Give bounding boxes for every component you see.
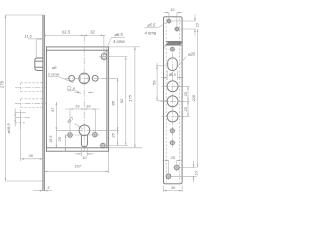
dim 59 left of faceplate bbox=[156, 63, 169, 101]
faceplate vertical centerline bbox=[172, 53, 174, 149]
dimension text 25 bottom bbox=[170, 156, 176, 160]
label d8 2 holes with leader bbox=[47, 65, 74, 83]
svg-text:175: 175 bbox=[127, 94, 132, 101]
dim chain 25/25 right of circles bbox=[179, 86, 190, 116]
dim 85 and 25 vertical line bbox=[117, 78, 119, 145]
keyhole circle bbox=[79, 125, 90, 136]
faceplate big hole 2 bbox=[161, 96, 185, 107]
vertical centerline through follower and keyhole bbox=[83, 35, 85, 152]
dim 107 (body width) bbox=[44, 151, 108, 173]
dimension text 11.5 bbox=[24, 33, 32, 38]
svg-text:⌀5.5: ⌀5.5 bbox=[147, 23, 156, 28]
lock body inner edge lines bbox=[46, 50, 108, 148]
dim d18.5 cylinder hole bbox=[14, 109, 30, 131]
dimension text 25 chain upper bbox=[184, 91, 188, 97]
svg-text:19: 19 bbox=[86, 104, 91, 109]
dimension text 10 top bbox=[170, 8, 175, 12]
faceplate edge view (side), 3mm strip bbox=[43, 15, 44, 191]
keyhole ext line right to dims bbox=[93, 129, 120, 131]
keyhole slot bbox=[81, 135, 87, 147]
dimension text 10 top-right bbox=[195, 22, 199, 27]
svg-text:⌀18.5: ⌀18.5 bbox=[6, 123, 11, 134]
dimension text 16.5 bbox=[49, 135, 53, 143]
dim 47 (deadbolt axis to keyhole axis) bbox=[56, 102, 58, 130]
dimension text 10 under body bbox=[82, 156, 87, 160]
hole d8 left bbox=[69, 75, 75, 81]
dimension text 19 right bbox=[86, 104, 91, 109]
svg-text:11.5: 11.5 bbox=[24, 33, 32, 38]
label d6.5 4 holes with leader bbox=[102, 32, 126, 59]
dim 10 vertical top-right bbox=[171, 15, 196, 36]
dimension text 3 bbox=[47, 185, 50, 190]
follower ext line to right dim bbox=[101, 77, 118, 79]
dimension text 107 bbox=[74, 164, 81, 169]
top dimension line 61.5 / 32 bbox=[43, 35, 106, 53]
dimension text 92 bbox=[119, 98, 124, 103]
dimension text d18.5 bbox=[6, 123, 11, 134]
bottom screw hole upper-right bbox=[173, 164, 180, 171]
dimension 11.5 (latch protrusion) bbox=[28, 38, 43, 57]
dimension text 19 left bbox=[75, 104, 80, 109]
dim 30 faceplate width bbox=[164, 186, 183, 193]
dimension text 85 bbox=[110, 100, 115, 105]
lock body outline bbox=[46, 47, 108, 151]
dimension text 276 bbox=[0, 80, 4, 89]
keyhole ext line left to dims bbox=[56, 129, 77, 131]
bottom hole ext line right bbox=[107, 145, 128, 147]
dimension text 59 bbox=[151, 80, 156, 85]
hole d6.5 top-right ext line to right bbox=[104, 56, 127, 58]
dim 228 overall bbox=[197, 29, 199, 168]
svg-text:59: 59 bbox=[151, 80, 156, 85]
mount hole left of keyhole bbox=[67, 132, 74, 139]
dim 175 vertical line bbox=[134, 47, 136, 148]
faceplate hidden body edges (dashed) bbox=[166, 19, 179, 183]
faceplate big hole 1 bbox=[162, 81, 185, 92]
dimension 276 line (overall faceplate height) bbox=[5, 15, 45, 181]
dimension text 25 lower-left bbox=[58, 136, 62, 142]
deadbolt upper centerline bbox=[15, 87, 46, 89]
svg-text:25: 25 bbox=[170, 156, 176, 160]
dim 25 bottom of faceplate bbox=[162, 160, 183, 173]
dim 10 top (hole offset) bbox=[164, 12, 183, 27]
dimension text 16.5 on faceplate bbox=[169, 73, 176, 77]
svg-text:92: 92 bbox=[119, 98, 124, 103]
svg-text:25: 25 bbox=[58, 136, 62, 142]
dim 10 bottom-right bbox=[172, 161, 197, 183]
centerline through mount holes bbox=[66, 134, 100, 136]
svg-text:⌀8: ⌀8 bbox=[52, 65, 57, 70]
dimension text 47 bbox=[50, 107, 55, 112]
body bottom ext line to right bbox=[109, 147, 142, 149]
svg-text:47: 47 bbox=[50, 107, 55, 112]
label d20 with leader bbox=[170, 52, 196, 76]
svg-text:2 отв: 2 отв bbox=[47, 72, 59, 77]
svg-text:⌀6.5: ⌀6.5 bbox=[114, 32, 123, 37]
svg-text:32: 32 bbox=[90, 29, 95, 34]
svg-text:107: 107 bbox=[74, 164, 81, 169]
svg-text:25: 25 bbox=[184, 106, 188, 112]
svg-text:25: 25 bbox=[184, 91, 188, 97]
dim 92 vertical line bbox=[125, 57, 127, 146]
dimension text 10 bottom-right bbox=[194, 170, 198, 175]
screw hole D bbox=[169, 128, 175, 134]
dim line 19/19 over keyhole bbox=[65, 108, 100, 132]
square follower hub d17 with 8mm square bbox=[79, 73, 90, 84]
dimension text 228 bbox=[192, 94, 196, 102]
mount hole right of keyhole bbox=[91, 131, 98, 138]
svg-text:25: 25 bbox=[111, 133, 115, 139]
bottom screw hole lower-left bbox=[165, 173, 172, 180]
cylinder slot obround 16.5 wide bbox=[168, 58, 178, 71]
svg-text:61.5: 61.5 bbox=[62, 30, 71, 35]
svg-text:36: 36 bbox=[28, 153, 33, 158]
svg-text:19: 19 bbox=[75, 104, 80, 109]
svg-text:4 отв: 4 отв bbox=[113, 39, 125, 44]
deadbolt lower centerline bbox=[15, 102, 46, 104]
screw hole A top bbox=[166, 18, 172, 24]
small dim under follower square bbox=[75, 92, 94, 94]
latch opening with hatch bbox=[166, 42, 183, 46]
latch bolt (side view) protruding left bbox=[35, 58, 43, 70]
dimension text 30 bbox=[171, 185, 176, 190]
svg-text:276: 276 bbox=[0, 80, 4, 89]
latch bolt front outline bbox=[165, 45, 182, 48]
screw hole E bbox=[169, 140, 175, 146]
dimension text 36 bbox=[28, 153, 33, 158]
dashed deadbolt thrown outline lower bbox=[21, 99, 43, 108]
dimension text 61.5 bbox=[62, 30, 71, 35]
dashed deadbolt thrown outline upper bbox=[21, 83, 43, 92]
svg-text:30: 30 bbox=[171, 185, 176, 190]
svg-text:⌀20: ⌀20 bbox=[188, 52, 196, 57]
dim 16.5 under obround bbox=[161, 71, 184, 81]
dimension text 25 right bbox=[111, 133, 115, 139]
svg-text:4 отв: 4 отв bbox=[145, 31, 157, 36]
hole d6.5 top-right bbox=[99, 52, 110, 62]
dim 25 lower-left bbox=[65, 135, 67, 152]
dim 16.5 (keyhole axis down) bbox=[56, 130, 58, 148]
svg-text:228: 228 bbox=[192, 94, 196, 102]
faceplate big hole 3 bbox=[162, 111, 185, 122]
keyhole slot width dim 10 bbox=[75, 148, 94, 156]
label square-8 with leader bbox=[67, 86, 81, 94]
dimension text 175 bbox=[127, 94, 132, 101]
centerline through d8 holes and follower bbox=[65, 77, 101, 79]
screw hole B offset bbox=[174, 26, 180, 32]
dim 36 (deadbolt throw) bbox=[21, 110, 43, 162]
label d5.5 4 holes bbox=[144, 20, 170, 35]
svg-text:16.5: 16.5 bbox=[49, 135, 53, 143]
dimension text 32 bbox=[90, 29, 95, 34]
svg-text:16.5: 16.5 bbox=[169, 73, 176, 77]
screw hole C under latch bbox=[169, 46, 175, 52]
hole d8 right bbox=[92, 75, 98, 81]
label d17 with leader to keyhole bbox=[66, 116, 83, 129]
svg-text:85: 85 bbox=[110, 100, 115, 105]
hole d6.5 bottom-right bbox=[99, 142, 106, 149]
dim 3 (faceplate thickness) bbox=[33, 190, 52, 192]
faceplate front view outline bbox=[164, 17, 183, 184]
dimension text 25 chain lower bbox=[184, 106, 188, 112]
body top ext line to right bbox=[109, 46, 140, 48]
keyhole horizontal centerline bbox=[77, 129, 93, 131]
